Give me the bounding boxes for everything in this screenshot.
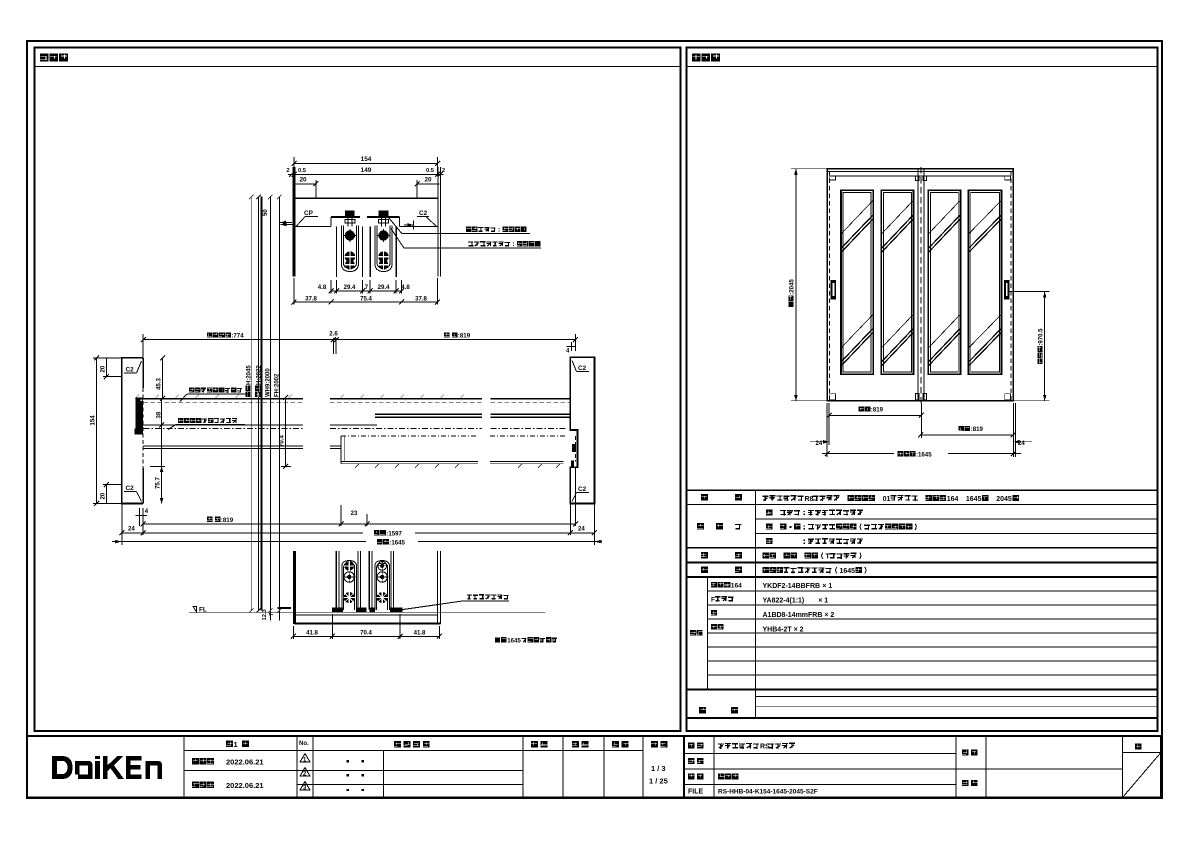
handle left door: [831, 280, 836, 300]
svg-text:4.8: 4.8: [318, 284, 327, 291]
left panel border: [35, 48, 681, 732]
svg-text:C2: C2: [126, 485, 135, 492]
svg-text:No.: No.: [299, 741, 309, 747]
svg-text:RS-HHB-04-K154-1645-2045-S2F: RS-HHB-04-K154-1645-2045-S2F: [718, 789, 818, 796]
chamfer label CP: [297, 210, 319, 226]
svg-text:1 / 25: 1 / 25: [649, 777, 668, 786]
label sliding cap: [168, 418, 245, 430]
svg-text:37.8: 37.8: [305, 295, 317, 302]
svg-text:154: 154: [90, 415, 97, 426]
dimension 819 bottom with 23: [141, 467, 578, 526]
svg-text:FILE: FILE: [688, 789, 703, 796]
left door leaf glass panels: [841, 190, 914, 374]
revision triangles: [300, 754, 310, 792]
svg-text:29.4: 29.4: [378, 284, 390, 291]
wall left thick bottom: [293, 551, 296, 624]
dimension 75.7 vertical: [150, 466, 165, 503]
svg-text:70.4: 70.4: [279, 435, 286, 447]
svg-text:45.3: 45.3: [156, 378, 163, 390]
dimension 1597 row with 24s: [119, 504, 597, 546]
svg-text:164: 164: [947, 496, 959, 503]
floor lines: [189, 612, 546, 623]
dimension 45.3 vertical: [147, 355, 165, 401]
bottom guide unit A: [336, 551, 360, 610]
svg-text:A1BD8-14mmFRB × 2: A1BD8-14mmFRB × 2: [763, 612, 835, 619]
vertical section break line bundle: [249, 195, 282, 613]
dimension door width 819 right: [918, 403, 1016, 457]
FL datum mark: [193, 607, 207, 614]
svg-text:2022.06.21: 2022.06.21: [226, 758, 264, 767]
spec sub labels: [711, 582, 742, 630]
right panel border: [687, 48, 1158, 732]
svg-text:75.4: 75.4: [360, 295, 372, 302]
svg-text:H:2045: H:2045: [247, 365, 253, 385]
svg-text:0.5: 0.5: [426, 168, 435, 174]
name block labels: [688, 743, 1141, 796]
svg-text:29.4: 29.4: [344, 284, 356, 291]
dimension row 41.8/70.4/41.8: [291, 614, 442, 639]
rotated height labels: [245, 365, 280, 397]
svg-text:12.3: 12.3: [262, 608, 268, 620]
left panel title 断面図: [35, 54, 681, 67]
dimension 20 left: [294, 177, 318, 199]
svg-text::819: :819: [971, 426, 984, 433]
svg-text:24: 24: [1018, 440, 1025, 447]
svg-text:C2: C2: [578, 486, 587, 493]
wall left thick: [293, 167, 296, 277]
svg-text:CP: CP: [304, 210, 314, 217]
svg-text::819: :819: [871, 407, 884, 414]
dimension frame width 1645: [822, 451, 1021, 458]
hanger unit B: [370, 211, 396, 277]
svg-text:1645: 1645: [507, 637, 521, 644]
svg-text:R8: R8: [805, 496, 814, 503]
door frame inner lines: [827, 171, 1013, 400]
glass hatch lines: [841, 200, 1002, 366]
svg-text:70.4: 70.4: [360, 629, 372, 636]
right door leaf glass panels: [928, 190, 1001, 374]
svg-text:2022.06.21: 2022.06.21: [226, 781, 264, 790]
svg-text:01: 01: [883, 496, 891, 503]
svg-text:41.8: 41.8: [414, 629, 426, 636]
arrow left of frame: [281, 223, 295, 227]
right jamb section: [570, 357, 594, 503]
svg-text:× 1: × 1: [822, 583, 832, 590]
svg-text:2045: 2045: [996, 496, 1012, 503]
dimension 50 rail height: [262, 209, 292, 225]
svg-text:41.8: 41.8: [306, 629, 318, 636]
svg-text::1597: :1597: [386, 530, 402, 537]
title block vertical dividers: [184, 736, 1123, 798]
dimension 4 bottom left: [136, 508, 149, 535]
spec table grid: [687, 490, 1157, 718]
dimension 20 right: [415, 177, 440, 199]
dimension row 4.8/29.4/7/29.4/4.8: [318, 280, 411, 293]
center meeting stile edges: [916, 169, 927, 400]
svg-text:2: 2: [442, 168, 445, 174]
svg-text:C2: C2: [419, 210, 428, 217]
handle right door: [1004, 280, 1009, 300]
dimension 24 left: [810, 403, 829, 457]
svg-text:24: 24: [128, 526, 135, 533]
svg-text:1645: 1645: [966, 496, 982, 503]
dimension line 774 / 2.6 / 819: [141, 331, 578, 358]
svg-text::819: :819: [221, 517, 234, 524]
svg-text::774: :774: [231, 333, 244, 340]
svg-text:C2: C2: [578, 365, 587, 372]
svg-text:2.6: 2.6: [329, 331, 338, 338]
svg-text:20: 20: [100, 492, 107, 499]
svg-text:7: 7: [365, 284, 369, 291]
veneer ticks bottom door: [355, 464, 560, 468]
dimension 4 top right: [566, 334, 576, 355]
svg-text::2045: :2045: [789, 279, 796, 295]
dimension hang height 2045: [788, 169, 827, 401]
right panel title 正面図: [687, 54, 1158, 67]
top frame head section: [294, 198, 438, 226]
svg-text:2: 2: [286, 168, 289, 174]
corner blocks: [830, 176, 1011, 400]
dimension 154 top: [292, 156, 441, 176]
chamfer label C2 right: [417, 210, 437, 227]
doors top edge: [830, 175, 1011, 177]
svg-text:FL: FL: [199, 607, 207, 614]
svg-text:164: 164: [731, 582, 742, 589]
title block frame: [27, 736, 1161, 798]
dimension row 37.8/75.4/37.8: [291, 278, 440, 305]
svg-text:FH:2002: FH:2002: [275, 373, 281, 397]
svg-text:50: 50: [262, 209, 269, 216]
note width 1645: [495, 637, 557, 644]
wall right pair: [438, 167, 441, 277]
dimension 70.4 vertical: [279, 395, 292, 469]
svg-text:YKDF2-14BBFRB: YKDF2-14BBFRB: [763, 583, 821, 590]
svg-text:149: 149: [361, 167, 372, 174]
svg-text:F: F: [711, 596, 715, 603]
spec row labels: [690, 494, 742, 713]
spec values: [763, 495, 1020, 634]
svg-text::1645: :1645: [916, 451, 932, 458]
svg-text::1645: :1645: [389, 539, 405, 546]
svg-text::819: :819: [458, 333, 471, 340]
svg-text:YHB4-2T × 2: YHB4-2T × 2: [763, 626, 804, 633]
small rotated dims 12.3 / 7: [262, 607, 291, 621]
svg-text:C2: C2: [126, 367, 135, 374]
arrow right in frame: [404, 221, 413, 230]
svg-text:1 / 3: 1 / 3: [651, 764, 666, 773]
dimension door width 819 left: [827, 403, 924, 445]
veneer face tick marks top door: [135, 395, 464, 399]
track lines: [143, 446, 341, 448]
DAIKEN logo: [52, 756, 162, 779]
svg-text:23: 23: [351, 510, 358, 517]
svg-text:20: 20: [299, 177, 307, 184]
leader hanger rail label: [389, 218, 531, 234]
dimension 38 door thickness: [155, 399, 164, 467]
label veneer face: [180, 387, 249, 401]
svg-text:WH9:2000: WH9:2000: [266, 368, 272, 397]
hanger unit A: [337, 211, 363, 277]
svg-text:20: 20: [424, 177, 432, 184]
flat rail profile: [332, 607, 403, 611]
dimension 2/0.5/149/0.5/2: [286, 167, 445, 177]
svg-text:1: 1: [234, 740, 238, 749]
leader stop rail label: [391, 229, 541, 249]
dimension 24 right: [1013, 403, 1032, 457]
dimension 20 vertical top: [100, 358, 122, 379]
dimension 20 vertical bottom: [100, 482, 122, 503]
label flat rail: [396, 594, 509, 610]
bottom guide unit B: [369, 551, 393, 610]
svg-text:154: 154: [361, 156, 372, 163]
svg-text:24: 24: [578, 526, 585, 533]
svg-text:0.5: 0.5: [298, 168, 307, 174]
svg-text:75.7: 75.7: [155, 477, 162, 489]
svg-text:1645: 1645: [840, 568, 856, 575]
svg-text:× 1: × 1: [818, 597, 828, 604]
center line dash: [920, 167, 922, 403]
svg-text:20: 20: [100, 365, 107, 372]
left jamb section: [122, 358, 143, 504]
svg-text:YA822-4(1:1): YA822-4(1:1): [763, 597, 805, 604]
wall right pair bottom: [437, 551, 440, 624]
svg-text:4.8: 4.8: [401, 284, 410, 291]
page diagonal: [1123, 752, 1162, 797]
svg-text:H:2022: H:2022: [256, 365, 262, 385]
dimension 154 vertical: [90, 355, 122, 506]
bottom door leaf plan: [341, 436, 576, 466]
dimension handle height 970.5: [1008, 292, 1049, 401]
svg-text:24: 24: [816, 440, 823, 447]
door frame outer: [827, 169, 1013, 401]
top door leaf plan: [135, 398, 569, 434]
dimension 1645 row: [112, 539, 602, 546]
svg-text::970.5: :970.5: [1038, 328, 1045, 346]
svg-text:37.8: 37.8: [415, 295, 427, 302]
revision header 第1版: [192, 740, 668, 791]
title block horizontal lines: [184, 750, 1161, 784]
